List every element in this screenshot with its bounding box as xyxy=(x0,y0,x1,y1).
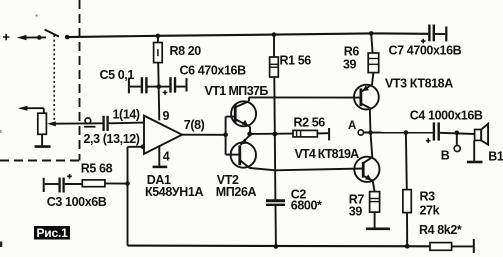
svg-text:C5 0,1: C5 0,1 xyxy=(100,68,135,82)
svg-text:R5 68: R5 68 xyxy=(81,161,113,175)
svg-text:R4 8k2*: R4 8k2* xyxy=(419,223,462,237)
svg-text:1(14): 1(14) xyxy=(113,107,140,121)
svg-text:C3 100x6В: C3 100x6В xyxy=(47,195,107,209)
svg-text:4: 4 xyxy=(163,149,170,163)
svg-text:R3: R3 xyxy=(420,190,436,204)
svg-text:VT3 КТ818А: VT3 КТ818А xyxy=(385,76,453,90)
svg-text:27k: 27k xyxy=(420,203,440,217)
svg-text:R1 56: R1 56 xyxy=(280,53,312,67)
svg-text:МП26А: МП26А xyxy=(216,185,257,199)
svg-text:9: 9 xyxy=(163,109,170,123)
svg-text:7(8): 7(8) xyxy=(184,118,205,132)
svg-text:В1: В1 xyxy=(488,149,503,163)
svg-text:VT1 МП37Б: VT1 МП37Б xyxy=(205,84,269,98)
svg-text:C4 1000x16В: C4 1000x16В xyxy=(410,108,483,122)
svg-text:39: 39 xyxy=(343,58,357,72)
svg-text:A: A xyxy=(348,120,356,132)
svg-text:C6 470x16В: C6 470x16В xyxy=(180,63,247,77)
svg-text:C7 4700x16В: C7 4700x16В xyxy=(389,44,462,58)
svg-text:В: В xyxy=(441,149,450,163)
svg-text:Рис.1: Рис.1 xyxy=(37,226,69,240)
svg-text:К548УН1А: К548УН1А xyxy=(145,185,203,199)
svg-text:R8 20: R8 20 xyxy=(170,44,202,58)
svg-text:R2 56: R2 56 xyxy=(294,115,326,129)
svg-text:VT4 КТ819А: VT4 КТ819А xyxy=(295,147,360,161)
svg-text:2,3 (13,12): 2,3 (13,12) xyxy=(84,132,140,146)
svg-text:39: 39 xyxy=(349,205,363,219)
svg-text:6800*: 6800* xyxy=(291,199,322,213)
svg-text:R6: R6 xyxy=(344,45,360,59)
